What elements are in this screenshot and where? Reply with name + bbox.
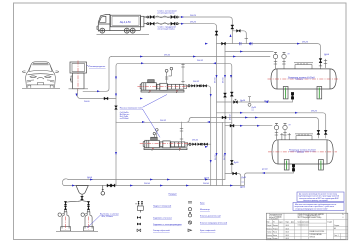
car bbox=[22, 62, 60, 89]
pump P2 suction flanges bbox=[180, 129, 183, 140]
wire pump P1 discharge bbox=[188, 86, 211, 186]
truck ground line bbox=[97, 34, 150, 36]
svg-text:Провер: Провер bbox=[267, 228, 272, 230]
wire truck discharge line 2 bbox=[144, 24, 217, 186]
centerline dispenser bbox=[77, 61, 79, 91]
manifold funnel bbox=[66, 186, 89, 210]
svg-text:04.05: 04.05 bbox=[286, 235, 290, 237]
tank T1 level gauges bbox=[273, 52, 286, 69]
wire tank T1 gauge line upper bbox=[225, 51, 273, 53]
svg-text:из автоцистерны: из автоцистерны bbox=[158, 29, 176, 31]
svg-text:№док: №док bbox=[279, 222, 283, 224]
svg-text:2Н-32: 2Н-32 bbox=[197, 60, 204, 62]
svg-text:Схема монтажная: Схема монтажная bbox=[298, 222, 310, 224]
wire pump P2 discharge bbox=[186, 143, 211, 145]
title block texts bbox=[267, 213, 345, 240]
svg-text:от 25.04.2005 г.: от 25.04.2005 г. bbox=[269, 219, 279, 221]
wire pump P2 suction drop bbox=[181, 122, 183, 142]
valve on T2 fill riser a bbox=[317, 130, 320, 134]
svg-text:2Н-50: 2Н-50 bbox=[203, 183, 210, 185]
pump P2 base bbox=[144, 148, 187, 151]
svg-text:Разраб: Разраб bbox=[267, 225, 272, 227]
valves bottom header bbox=[107, 184, 115, 187]
valve on x231.8 riser low bbox=[230, 160, 233, 164]
leader cylinders label bbox=[87, 216, 100, 229]
pump P2 discharge valves bbox=[189, 143, 191, 145]
svg-text:Носов: Носов bbox=[273, 232, 277, 234]
tanker truck bbox=[97, 14, 150, 34]
svg-text:04.05: 04.05 bbox=[286, 225, 290, 227]
svg-text:Подп: Подп bbox=[286, 222, 290, 224]
legend symbols column 2 bbox=[188, 202, 192, 232]
svg-text:Н.контр: Н.контр bbox=[267, 235, 272, 237]
truck chassis bbox=[98, 27, 141, 31]
svg-text:сл.: сл. bbox=[242, 182, 245, 184]
svg-text:Манометр: Манометр bbox=[200, 209, 211, 211]
pump P1 base bbox=[141, 90, 184, 93]
title block grid bbox=[266, 220, 348, 237]
valve truck line2 a bbox=[150, 22, 154, 25]
svg-text:Топливораздаточ.: Топливораздаточ. bbox=[89, 66, 106, 68]
pump P2 terminal box bbox=[151, 137, 158, 140]
car bumper bbox=[27, 80, 55, 85]
car mirrors bbox=[22, 71, 58, 73]
pump P2 relief assembly bbox=[153, 129, 158, 138]
green marks in tank legs bbox=[286, 88, 321, 170]
pump P1 motor bbox=[142, 83, 157, 90]
svg-text:Петров: Петров bbox=[273, 228, 278, 230]
svg-text:Козлов: Козлов bbox=[273, 238, 278, 240]
valve on dispenser drop x116 bbox=[115, 106, 118, 110]
tank T1 fittings platform bbox=[294, 63, 313, 69]
tank T1 horizontal vessel bbox=[271, 63, 336, 99]
valve on fill header x225 bbox=[222, 42, 226, 45]
dispenser ground bbox=[69, 88, 89, 90]
svg-text:Стадия: Стадия bbox=[327, 222, 332, 224]
car roof band bbox=[32, 63, 48, 65]
svg-text:Ду50: Ду50 bbox=[240, 187, 246, 189]
svg-text:2Н-25: 2Н-25 bbox=[302, 42, 309, 44]
svg-text:2Н-32: 2Н-32 bbox=[192, 140, 199, 142]
svg-text:Лист 1. Резервуары топлива. Сх: Лист 1. Резервуары топлива. Схема) bbox=[298, 217, 322, 219]
svg-text:Продукт: Продукт bbox=[169, 194, 177, 196]
svg-text:2Н-50: 2Н-50 bbox=[223, 77, 225, 83]
tank T2 leg left bbox=[284, 160, 289, 171]
wire vertical column x225 bbox=[224, 44, 226, 180]
valve on x231 riser bbox=[230, 92, 233, 96]
svg-text:Утверд: Утверд bbox=[267, 238, 272, 240]
valve on bypass bbox=[237, 29, 241, 32]
wire tank T1 fill line bbox=[217, 44, 321, 66]
nitrogen cylinder 2 bbox=[81, 210, 94, 231]
coupling truck line1 bbox=[147, 16, 149, 18]
svg-text:2Н-25: 2Н-25 bbox=[190, 15, 197, 17]
wire dispenser product line A bbox=[112, 56, 271, 58]
tank T1 drain valve cluster bbox=[291, 93, 294, 100]
wire tank T2 fill line upper bbox=[217, 113, 326, 138]
tank T1 leg right bbox=[317, 87, 322, 99]
centerline cylinder 2 bbox=[88, 217, 90, 230]
truck tank body bbox=[111, 15, 141, 27]
leader to pump P2 bbox=[143, 109, 161, 137]
svg-text:Задвижка стальная: Задвижка стальная bbox=[153, 217, 172, 219]
valve T2 fill line bbox=[222, 116, 226, 119]
centerline pump P2 bbox=[140, 143, 190, 145]
hose truck line1 bbox=[156, 16, 170, 18]
svg-text:Т.контр: Т.контр bbox=[267, 232, 272, 234]
svg-text:Ду40: Ду40 bbox=[240, 100, 246, 102]
svg-text:Дата: Дата bbox=[291, 222, 294, 224]
centerline tank T1 bbox=[268, 78, 340, 80]
wire lower drain run bbox=[225, 174, 241, 186]
tank T2 drain valve cluster bbox=[292, 165, 295, 172]
note box 2 bbox=[293, 203, 344, 211]
svg-text:2Н-25: 2Н-25 bbox=[311, 111, 318, 113]
cylinder riser left bbox=[65, 203, 67, 210]
legend symbol manifold bbox=[135, 201, 143, 212]
svg-text:2Н-40: 2Н-40 bbox=[84, 101, 90, 103]
svg-text:Ду50: Ду50 bbox=[87, 177, 93, 179]
centerline cylinder 1 bbox=[65, 217, 67, 230]
centerline pump P1 bbox=[137, 86, 188, 88]
pump P1 relief assembly bbox=[165, 67, 173, 83]
blue leader lines bbox=[87, 65, 168, 228]
pump P2 spool pieces bbox=[171, 142, 185, 147]
wire truck discharge line 1 bbox=[144, 17, 232, 44]
pump P1 motor end cap bbox=[140, 84, 142, 90]
wire tank T2 gauge line bbox=[225, 125, 272, 127]
wire tank T2 drain line bbox=[245, 171, 294, 186]
valve truck line1 b bbox=[171, 15, 175, 18]
pump feet red marks bbox=[149, 91, 180, 149]
wire dispenser drop to header bbox=[115, 122, 117, 186]
svg-text:технологическая: технологическая bbox=[298, 224, 309, 226]
svg-text:2Н-25: 2Н-25 bbox=[190, 22, 197, 24]
pump P1 terminal box bbox=[148, 80, 155, 83]
svg-text:2Н-50: 2Н-50 bbox=[144, 183, 151, 185]
nitrogen cylinder 1 bbox=[58, 210, 71, 231]
svg-text:РГС-25: РГС-25 bbox=[297, 152, 305, 154]
svg-text:Иванов: Иванов bbox=[273, 225, 278, 227]
legend symbol valve2 bbox=[137, 223, 141, 226]
pump P1 coupling bbox=[157, 84, 160, 89]
svg-text:Ду50: Ду50 bbox=[324, 54, 330, 56]
vent stub on drain line bbox=[248, 97, 250, 102]
svg-text:уклон: уклон bbox=[262, 168, 269, 170]
car windshield bbox=[29, 64, 52, 71]
svg-text:согласно проекту электрики: согласно проекту электрики bbox=[303, 200, 328, 202]
svg-text:АЦ-4,2-53: АЦ-4,2-53 bbox=[120, 21, 132, 24]
legend texts column 2 bbox=[200, 203, 228, 233]
bypass flange bbox=[245, 38, 248, 40]
wire lower product header bbox=[64, 185, 244, 187]
tank T2 fittings platform bbox=[295, 134, 313, 140]
valve truck line1 a bbox=[150, 15, 154, 18]
pump P1 unit bbox=[140, 80, 186, 93]
coupling truck line2 bbox=[147, 23, 149, 25]
cylinder riser right bbox=[88, 203, 90, 210]
svg-text:Белов: Белов bbox=[273, 235, 277, 237]
valve on drain header bbox=[234, 99, 238, 103]
wire pump P1 suction drop bbox=[182, 63, 184, 83]
svg-text:2Н-50: 2Н-50 bbox=[215, 77, 217, 83]
svg-text:сл.: сл. bbox=[252, 109, 255, 111]
truck outlet stubs bbox=[144, 17, 147, 24]
tank T2 leg right bbox=[319, 160, 324, 171]
svg-text:из автоцистерны: из автоцистерны bbox=[157, 13, 175, 15]
funnel outlet valve bbox=[81, 196, 84, 200]
svg-text:Ду50: Ду50 bbox=[204, 177, 210, 179]
pump P2 coupling bbox=[160, 142, 163, 147]
drain pot small circle bbox=[248, 103, 251, 106]
wire bypass branch to fill header bbox=[232, 31, 246, 44]
pump P2 casing bbox=[163, 141, 170, 148]
pump P1 spool pieces bbox=[168, 84, 184, 89]
note box 1 bbox=[297, 192, 344, 202]
valve on riser x216 bbox=[215, 31, 218, 35]
svg-text:2Н-32: 2Н-32 bbox=[229, 114, 231, 120]
blue flow arrows bbox=[72, 16, 300, 187]
valve on riser x231 bbox=[231, 25, 234, 29]
svg-text:Лист 1: Лист 1 bbox=[334, 235, 338, 237]
tank T1 leg left bbox=[283, 87, 288, 99]
svg-text:Насосы перекачки топл.: Насосы перекачки топл. bbox=[120, 108, 143, 110]
car ground line bbox=[22, 87, 60, 89]
wire pump P2 suction line bbox=[116, 118, 232, 123]
leader dispenser label bbox=[87, 65, 90, 67]
wire tank T2 suction line bbox=[192, 118, 318, 139]
valve dispenser return bbox=[104, 97, 108, 100]
svg-text:04.05: 04.05 bbox=[286, 228, 290, 230]
svg-text:2Н-32: 2Н-32 bbox=[160, 120, 167, 122]
car plate and wheels bbox=[28, 83, 53, 88]
wire tank T1 drain header bbox=[217, 99, 293, 102]
svg-text:Гидрант пожарный: Гидрант пожарный bbox=[153, 205, 172, 208]
car hood bbox=[28, 74, 54, 75]
svg-text:Клапан предохранительный: Клапан предохранительный bbox=[200, 222, 228, 225]
svg-text:04.05: 04.05 bbox=[286, 232, 290, 234]
tank T2 horizontal vessel bbox=[272, 134, 333, 170]
svg-text:РГС-25: РГС-25 bbox=[296, 79, 304, 81]
svg-text:Изм: Изм bbox=[267, 222, 270, 224]
legend symbol valve3 bbox=[137, 229, 141, 232]
wire dispenser line B with pump P1 suction bbox=[116, 63, 232, 122]
valve on T2 fill riser b bbox=[324, 130, 327, 134]
svg-text:04.05: 04.05 bbox=[286, 238, 290, 240]
truck cab bbox=[97, 14, 110, 31]
valve on lower drain run bbox=[233, 172, 237, 175]
truck rear cabinet bbox=[141, 16, 144, 27]
car grille dome bbox=[37, 77, 44, 79]
svg-text:Лст: Лст bbox=[273, 222, 276, 224]
svg-text:Кран сифонный: Кран сифонный bbox=[200, 229, 216, 232]
pump P1 discharge valves bbox=[188, 85, 190, 87]
svg-text:Кран: Кран bbox=[200, 203, 205, 205]
valve T2 gauge line bbox=[230, 124, 234, 127]
car body front view bbox=[26, 62, 56, 88]
valve on x225 riser bbox=[224, 93, 227, 97]
wire column x222.3 bbox=[221, 122, 223, 185]
svg-text:40л, 150атм: 40л, 150атм bbox=[102, 216, 114, 218]
centerline tank T2 bbox=[268, 151, 337, 153]
wire dispenser lower return line bbox=[78, 89, 117, 99]
tank T1 vent fittings bbox=[319, 59, 327, 69]
tank T2 level gauges bbox=[274, 123, 287, 139]
cylinder riser valves left bbox=[64, 201, 66, 209]
wire x231.8 lower extension bbox=[231, 122, 233, 173]
pump P2 unit bbox=[143, 137, 187, 150]
svg-text:2Н-32: 2Н-32 bbox=[193, 81, 200, 83]
valve truck line2 b bbox=[171, 22, 175, 25]
wire header end loop bbox=[62, 179, 68, 186]
svg-text:Задвижка с электроприводом: Задвижка с электроприводом bbox=[153, 224, 182, 226]
pump P1 casing bbox=[160, 83, 167, 90]
svg-text:Затвор обратный: Затвор обратный bbox=[153, 229, 170, 232]
car headlights bbox=[30, 76, 51, 78]
tank T2 vent fittings nozzles bbox=[280, 133, 291, 140]
legend texts column 1 bbox=[153, 205, 182, 233]
svg-text:2Н-32: 2Н-32 bbox=[164, 54, 171, 56]
svg-text:n=2900об: n=2900об bbox=[120, 118, 130, 120]
drain pot on header bbox=[101, 192, 105, 196]
svg-text:сторону резервуаров не менее 0: сторону резервуаров не менее 0,002 bbox=[295, 208, 327, 210]
hose truck line2 bbox=[156, 23, 170, 25]
cylinder riser valves right bbox=[87, 201, 89, 209]
pump P1 suction flanges bbox=[181, 65, 184, 82]
svg-text:Клапан дыхательный: Клапан дыхательный bbox=[200, 214, 221, 217]
wire dispenser riser bbox=[83, 57, 112, 92]
valve on T1 fill riser bbox=[319, 59, 322, 63]
truck wheels bbox=[100, 28, 105, 33]
pump P2 motor bbox=[145, 140, 160, 147]
wire upper vapour header bbox=[68, 179, 225, 181]
fuel dispenser bbox=[69, 62, 89, 89]
cylinders ground line bbox=[56, 230, 98, 232]
legend symbol valve1 bbox=[137, 216, 141, 219]
pump P2 motor end cap bbox=[143, 141, 145, 147]
leader to pump P1 bbox=[143, 95, 168, 108]
